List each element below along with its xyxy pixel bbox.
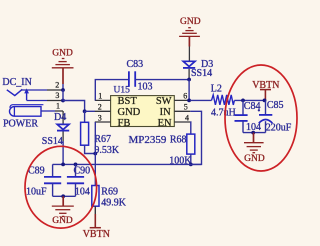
node output rail junctions [241, 99, 245, 103]
wire input caps bottom rail [53, 195, 76, 197]
capacitor C83 (bootstrap) [95, 80, 129, 101]
svg-text:R68: R68 [170, 134, 187, 145]
svg-text:3: 3 [55, 91, 59, 100]
wire GND stem to jack pin2 [62, 84, 64, 90]
svg-text:BST: BST [118, 96, 138, 107]
svg-text:10uF: 10uF [26, 187, 47, 198]
svg-text:5: 5 [184, 103, 188, 112]
svg-text:3: 3 [98, 113, 102, 122]
pin 3 wire [27, 100, 47, 102]
connector DC jack spring contact (pin 2) [7, 89, 22, 95]
wire FB pin down to R69 [94, 122, 96, 186]
resistor R69 [92, 186, 99, 207]
chip U15 MP2359 body [111, 96, 175, 127]
svg-text:SW: SW [156, 96, 172, 107]
wire jack pin3 to chip GND pin node [63, 101, 85, 112]
svg-text:IN: IN [160, 107, 171, 118]
svg-text:EN: EN [158, 118, 172, 129]
svg-text:R69: R69 [101, 187, 118, 198]
connector DC jack barrel (pin 1) [9, 107, 41, 117]
svg-text:FB: FB [118, 118, 131, 129]
red ellipse (bottom-left) [25, 146, 97, 228]
capacitor C89 [52, 164, 54, 177]
svg-text:GND: GND [52, 216, 73, 226]
svg-text:C85: C85 [267, 100, 284, 111]
svg-text:POWER: POWER [3, 119, 38, 130]
pin 1 stub [95, 99, 111, 101]
node chip pin2 junction [83, 109, 87, 113]
svg-text:R67: R67 [94, 134, 111, 145]
svg-text:GND: GND [118, 107, 141, 118]
svg-text:MP2359: MP2359 [129, 134, 167, 146]
resistor R67 [84, 111, 86, 122]
resistor R68 [187, 134, 195, 154]
svg-text:GND: GND [52, 48, 73, 58]
wire IN pin to input rail [190, 111, 201, 164]
capacitor C84 [242, 100, 244, 115]
wire R67 bottom to FB node [85, 145, 96, 153]
svg-text:DC_IN: DC_IN [2, 77, 31, 88]
power port GND (bottom-left) [62, 196, 64, 206]
junction dot artifact [258, 109, 260, 111]
svg-text:103: 103 [138, 82, 153, 93]
wire input rail [53, 163, 202, 165]
svg-text:4.7uH: 4.7uH [211, 108, 236, 119]
svg-text:2: 2 [98, 103, 102, 112]
diode D4 [62, 111, 64, 124]
red ellipse (right) [225, 65, 297, 171]
svg-text:9.53K: 9.53K [94, 145, 120, 156]
pin 2 stub [95, 110, 111, 112]
node SW pin junction [187, 99, 191, 103]
junction dots jack pins 2-3 tie to GND [61, 88, 65, 92]
svg-text:L2: L2 [211, 83, 222, 94]
power port GND (below output caps) [253, 133, 255, 143]
svg-text:C83: C83 [127, 59, 144, 70]
svg-text:SS14: SS14 [42, 136, 63, 147]
svg-text:SS14: SS14 [191, 68, 212, 79]
pin 3 stub [95, 121, 111, 123]
svg-text:104: 104 [75, 187, 90, 198]
svg-text:4: 4 [185, 113, 189, 122]
pin 4 stub [174, 121, 190, 123]
svg-text:1: 1 [98, 92, 102, 101]
capacitor C90 [75, 164, 77, 177]
svg-text:2: 2 [55, 81, 59, 90]
connector DC jack switch arrow (pin 3) [26, 93, 28, 101]
wire EN pin down to R68 [189, 122, 192, 134]
node D3 / C83 junction [187, 78, 191, 82]
pin 2 wire [21, 89, 47, 91]
wire output caps bottom rail [243, 132, 266, 134]
svg-text:49.9K: 49.9K [101, 197, 127, 208]
pin 6 stub [174, 99, 190, 101]
power port VBTN (bottom) [94, 206, 96, 214]
svg-text:VBTN: VBTN [83, 229, 110, 240]
svg-text:GND: GND [180, 17, 201, 27]
wire D4 cathode down to input rail [62, 132, 64, 142]
svg-text:C90: C90 [74, 166, 91, 177]
svg-text:6: 6 [183, 92, 187, 101]
svg-text:220uF: 220uF [266, 122, 292, 133]
capacitor C85 (polarized) [265, 100, 267, 115]
inductor L2 [212, 95, 235, 105]
connector DC jack sleeve slot line [10, 105, 44, 108]
power port GND (top-left) [52, 59, 74, 85]
power port GND (top-right) [179, 28, 200, 47]
svg-text:GND: GND [244, 154, 265, 164]
pin 5 stub [174, 110, 190, 112]
svg-text:C89: C89 [28, 166, 45, 177]
node FB divider junction [93, 152, 97, 156]
svg-text:1: 1 [56, 102, 60, 111]
svg-text:U15: U15 [114, 86, 131, 96]
svg-text:D4: D4 [54, 112, 66, 123]
diode D3 [188, 47, 190, 62]
